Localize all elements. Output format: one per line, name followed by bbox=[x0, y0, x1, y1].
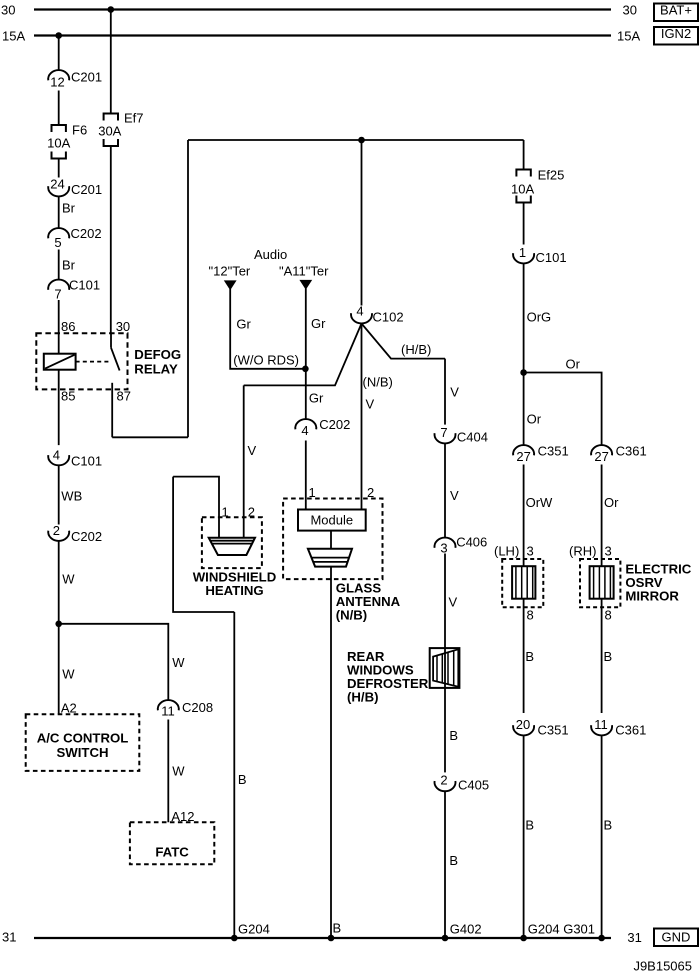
FATC dashed box bbox=[130, 822, 214, 864]
svg-text:GND: GND bbox=[662, 930, 691, 945]
svg-text:W: W bbox=[62, 667, 75, 682]
label WINDSHIELD HEATING bbox=[193, 570, 277, 599]
svg-text:31: 31 bbox=[627, 930, 641, 945]
audio terminal A11 triangle bbox=[299, 280, 312, 290]
label A/C CONTROL SWITCH bbox=[37, 731, 129, 760]
label bus 15A right bbox=[617, 29, 640, 44]
label relay pin 30 bbox=[116, 319, 130, 334]
svg-text:27: 27 bbox=[594, 449, 608, 464]
glass antenna element bbox=[308, 549, 352, 567]
svg-text:(H/B): (H/B) bbox=[401, 342, 431, 357]
label 31 left bbox=[2, 930, 16, 945]
relay coil bbox=[44, 354, 76, 370]
svg-text:RELAY: RELAY bbox=[134, 361, 178, 376]
svg-text:1: 1 bbox=[519, 245, 526, 260]
svg-text:30: 30 bbox=[623, 3, 637, 18]
ground junction G402 bbox=[442, 922, 482, 942]
label "12"Ter bbox=[209, 264, 251, 279]
svg-text:B: B bbox=[449, 728, 458, 743]
wire 12Ter Gr to junction bbox=[230, 289, 305, 369]
svg-text:(W/O RDS): (W/O RDS) bbox=[233, 353, 299, 368]
svg-text:Br: Br bbox=[62, 201, 76, 216]
label bus 30 right bbox=[623, 3, 637, 18]
svg-text:30A: 30A bbox=[98, 124, 121, 139]
connector C405 pin 2 bbox=[435, 773, 490, 793]
svg-text:8: 8 bbox=[605, 608, 612, 623]
svg-text:V: V bbox=[366, 397, 375, 412]
label antenna pin 2 bbox=[367, 485, 374, 500]
ground junction G204 G301 bbox=[520, 922, 595, 942]
windshield heating dashed box bbox=[202, 517, 262, 568]
label W on C208 branch bbox=[172, 655, 185, 670]
svg-text:C361: C361 bbox=[615, 723, 646, 738]
connector C404 pin 7 bbox=[435, 425, 488, 445]
label V windshield bbox=[248, 443, 257, 458]
label LH pin 8 bbox=[527, 608, 534, 623]
label RH pin 8 bbox=[605, 608, 612, 623]
svg-text:OrG: OrG bbox=[527, 310, 552, 325]
svg-text:3: 3 bbox=[527, 544, 534, 559]
svg-text:C101: C101 bbox=[536, 250, 567, 265]
label 31 right bbox=[627, 930, 641, 945]
label "A11"Ter bbox=[279, 264, 329, 279]
wire B to ground G204 bbox=[233, 612, 235, 938]
svg-text:Or: Or bbox=[604, 495, 619, 510]
wire branch to C208 pin11 bbox=[59, 624, 169, 700]
wire 15A bus to C201 pin12 bbox=[58, 36, 60, 71]
wire LH mirror to C351-20, B bbox=[524, 599, 534, 713]
svg-text:B: B bbox=[525, 818, 534, 833]
label bus 30 left bbox=[1, 3, 15, 18]
svg-text:C202: C202 bbox=[71, 529, 102, 544]
label Gr below junction bbox=[309, 391, 324, 406]
svg-text:C208: C208 bbox=[182, 700, 213, 715]
svg-text:4: 4 bbox=[356, 304, 363, 319]
wire C102 H/B branch bbox=[362, 324, 446, 359]
wire F6 to C201 pin24 bbox=[58, 159, 60, 178]
svg-text:11: 11 bbox=[594, 717, 608, 732]
wire tap down to C102 pin4 bbox=[361, 140, 363, 306]
connector C101 pin 4 bbox=[48, 448, 102, 469]
wire windshield pin1 up-over bbox=[173, 477, 219, 538]
label Or branch bbox=[566, 357, 581, 372]
label DEFOG RELAY bbox=[134, 347, 181, 376]
svg-text:C201: C201 bbox=[71, 182, 102, 197]
relay coil-armature dashed link bbox=[76, 361, 111, 363]
svg-text:27: 27 bbox=[516, 449, 530, 464]
label relay pin 86 bbox=[61, 319, 75, 334]
glass antenna dashed box bbox=[283, 499, 382, 580]
svg-text:C406: C406 bbox=[456, 535, 487, 550]
svg-text:A2: A2 bbox=[61, 701, 77, 716]
svg-text:30: 30 bbox=[1, 3, 15, 18]
RH mirror dashed box bbox=[580, 559, 620, 607]
svg-text:3: 3 bbox=[605, 544, 612, 559]
antenna module box bbox=[298, 510, 366, 531]
wire feed down to Ef25 bbox=[523, 140, 525, 170]
svg-text:DEFOG: DEFOG bbox=[134, 347, 181, 362]
wire C201-24 to C202 pin5, Br bbox=[59, 197, 76, 229]
wire Or branch to RH column bbox=[524, 373, 602, 446]
label (N/B) bbox=[363, 375, 393, 390]
svg-text:C404: C404 bbox=[457, 430, 488, 445]
label pin A12 bbox=[171, 809, 194, 824]
wire C208-11 to FATC, W bbox=[168, 720, 185, 823]
wire 87 run to riser bbox=[112, 436, 188, 438]
svg-text:15A: 15A bbox=[2, 29, 25, 44]
wire C361-11 to ground, B bbox=[602, 736, 613, 939]
wire Ef25 to C101 pin1 bbox=[523, 203, 525, 245]
svg-text:"12"Ter: "12"Ter bbox=[209, 264, 251, 279]
svg-text:IGN2: IGN2 bbox=[661, 26, 691, 41]
wire bus 30 bbox=[34, 8, 611, 10]
ground junction G204 left bbox=[231, 922, 270, 942]
svg-text:V: V bbox=[449, 595, 458, 610]
connector C101 pin 1 bbox=[513, 245, 566, 265]
wire C202-4 to antenna module pin1 bbox=[305, 441, 307, 510]
svg-text:C351: C351 bbox=[538, 444, 569, 459]
svg-text:(RH): (RH) bbox=[569, 544, 596, 559]
wire C202-2 down to A/C control switch, W bbox=[59, 541, 76, 714]
label REAR WINDOWS DEFROSTER (H/B) bbox=[347, 649, 429, 705]
wire C201-12 to fuse F6 bbox=[58, 91, 60, 126]
svg-text:MIRROR: MIRROR bbox=[625, 589, 679, 604]
wire C351-20 to ground, B bbox=[524, 736, 534, 939]
wire V to windshield heating pin2 bbox=[243, 385, 245, 537]
svg-text:(H/B): (H/B) bbox=[347, 690, 379, 705]
connector C361 pin 27 bbox=[591, 444, 647, 465]
wire RH mirror to C361-11, B bbox=[602, 599, 613, 713]
svg-text:8: 8 bbox=[527, 608, 534, 623]
svg-text:C201: C201 bbox=[71, 70, 102, 85]
svg-text:85: 85 bbox=[61, 389, 75, 404]
svg-text:Ef7: Ef7 bbox=[124, 111, 144, 126]
wire through defroster to C405, B bbox=[445, 648, 458, 772]
svg-text:"A11"Ter: "A11"Ter bbox=[279, 264, 329, 279]
fuse Ef25 10A bbox=[511, 168, 564, 203]
label windshield pin 1 bbox=[222, 505, 229, 520]
svg-text:OrW: OrW bbox=[526, 495, 553, 510]
connector C202 pin 4 bbox=[295, 417, 350, 438]
svg-text:B: B bbox=[604, 649, 613, 664]
connector C351 pin 20 bbox=[513, 717, 568, 738]
junction on bus 30 (Ef7 feed) bbox=[108, 6, 115, 13]
svg-text:C361: C361 bbox=[616, 444, 647, 459]
svg-text:2: 2 bbox=[440, 773, 447, 788]
ground junction glass antenna bbox=[328, 935, 335, 942]
label FATC bbox=[155, 845, 189, 860]
svg-text:B: B bbox=[238, 772, 247, 787]
wire A11Ter Gr down to C202 pin4 bbox=[305, 289, 307, 420]
svg-text:(N/B): (N/B) bbox=[363, 375, 393, 390]
connector C208 pin 11 bbox=[158, 700, 213, 719]
svg-text:G204 G301: G204 G301 bbox=[528, 922, 595, 937]
junction W wire split bbox=[55, 621, 62, 628]
svg-text:W: W bbox=[172, 655, 185, 670]
svg-text:FATC: FATC bbox=[155, 845, 189, 860]
connector C361 pin 11 bbox=[591, 717, 646, 738]
svg-text:Ef25: Ef25 bbox=[538, 168, 565, 183]
svg-text:A/C CONTROL: A/C CONTROL bbox=[37, 731, 129, 746]
svg-text:7: 7 bbox=[54, 287, 61, 302]
label (RH) bbox=[569, 544, 596, 559]
audio terminal 12 triangle bbox=[224, 280, 237, 290]
fuse F6 10A bbox=[47, 123, 87, 159]
label bus 15A left bbox=[2, 29, 25, 44]
svg-text:Gr: Gr bbox=[311, 316, 326, 331]
wire C406 to defroster, V bbox=[445, 554, 458, 649]
svg-text:(LH): (LH) bbox=[494, 544, 519, 559]
RH mirror motor bbox=[590, 566, 614, 599]
label pin A2 bbox=[61, 701, 77, 716]
wire bus 30 to fuse Ef7 bbox=[110, 10, 112, 114]
label GLASS ANTENNA (N/B) bbox=[336, 581, 401, 623]
connector C101 pin 7 bbox=[48, 278, 100, 302]
svg-text:C102: C102 bbox=[373, 310, 404, 325]
fuse Ef7 30A bbox=[98, 111, 143, 147]
connector C201 pin 12 bbox=[48, 70, 102, 90]
svg-text:Gr: Gr bbox=[309, 391, 324, 406]
label Audio bbox=[254, 247, 287, 262]
svg-text:12: 12 bbox=[50, 75, 64, 90]
svg-text:Br: Br bbox=[62, 258, 76, 273]
svg-text:C101: C101 bbox=[69, 278, 100, 293]
label antenna pin 1 bbox=[309, 485, 316, 500]
label (LH) bbox=[494, 544, 519, 559]
svg-text:C202: C202 bbox=[319, 417, 350, 432]
connector C201 pin 24 bbox=[48, 177, 102, 198]
label RH pin 3 bbox=[605, 544, 612, 559]
junction Or split bbox=[520, 369, 527, 376]
svg-text:24: 24 bbox=[50, 177, 64, 192]
svg-text:WB: WB bbox=[61, 489, 82, 504]
svg-text:11: 11 bbox=[161, 704, 175, 719]
terminal box BAT+ bbox=[654, 3, 698, 22]
terminal box GND bbox=[654, 929, 698, 947]
wire C351-27 to LH mirror, OrW bbox=[524, 465, 553, 567]
wire module to antenna element bbox=[330, 531, 332, 549]
wire relay pin 87 stub bbox=[111, 383, 113, 438]
wire riser up bbox=[187, 140, 189, 437]
wire windshield ground run bbox=[173, 477, 234, 612]
svg-text:3: 3 bbox=[440, 541, 447, 556]
wire C102 N/B branch to module pin2 bbox=[361, 324, 363, 510]
svg-text:V: V bbox=[248, 443, 257, 458]
A/C CONTROL SWITCH dashed box bbox=[26, 714, 140, 771]
svg-text:87: 87 bbox=[117, 389, 131, 404]
svg-text:Module: Module bbox=[310, 513, 353, 528]
svg-text:5: 5 bbox=[54, 235, 61, 250]
svg-text:10A: 10A bbox=[511, 182, 534, 197]
svg-text:W: W bbox=[62, 572, 75, 587]
wire C361-27 to RH mirror, Or bbox=[602, 465, 620, 567]
svg-text:86: 86 bbox=[61, 319, 75, 334]
defog relay dashed box bbox=[36, 333, 127, 389]
svg-text:W: W bbox=[172, 764, 185, 779]
junction audio Gr bbox=[302, 366, 309, 373]
svg-text:J9B15065: J9B15065 bbox=[633, 959, 692, 974]
label LH pin 3 bbox=[527, 544, 534, 559]
label windshield pin 2 bbox=[248, 505, 255, 520]
label ELECTRIC OSRV MIRROR bbox=[625, 562, 691, 604]
windshield heating element bbox=[209, 538, 255, 555]
wire C202-5 to C101 pin7, Br bbox=[59, 250, 76, 280]
svg-text:10A: 10A bbox=[47, 136, 70, 151]
label Gr 12Ter bbox=[236, 317, 251, 332]
label V antenna bbox=[366, 397, 375, 412]
svg-text:4: 4 bbox=[53, 448, 60, 463]
svg-text:C351: C351 bbox=[538, 723, 569, 738]
wire C405 to ground G402, B bbox=[445, 791, 458, 938]
label (W/O RDS) bbox=[233, 353, 299, 368]
rear window defroster element bbox=[430, 648, 460, 688]
svg-text:V: V bbox=[450, 488, 459, 503]
wire C102 W/O-RDS branch bbox=[244, 324, 362, 386]
wire H/B down to C404 bbox=[444, 359, 446, 425]
label relay pin 87 bbox=[117, 389, 131, 404]
connector C406 pin 3 bbox=[435, 535, 488, 556]
label B windshield ground bbox=[238, 772, 247, 787]
connector C102 pin 4 bbox=[351, 304, 404, 325]
label J9B15065 bbox=[633, 959, 692, 974]
label V defroster top bbox=[450, 385, 459, 400]
wire top feed run bbox=[188, 139, 524, 141]
ground junction right bbox=[598, 935, 605, 942]
svg-text:HEATING: HEATING bbox=[205, 583, 263, 598]
svg-text:30: 30 bbox=[116, 319, 130, 334]
svg-text:Audio: Audio bbox=[254, 247, 287, 262]
svg-text:7: 7 bbox=[440, 425, 447, 440]
svg-text:G402: G402 bbox=[450, 922, 482, 937]
wire C101-4 to C202 pin2, WB bbox=[59, 465, 83, 524]
terminal box IGN2 bbox=[654, 26, 698, 45]
svg-text:C101: C101 bbox=[71, 454, 102, 469]
svg-text:Or: Or bbox=[527, 412, 542, 427]
svg-text:B: B bbox=[604, 818, 613, 833]
svg-text:B: B bbox=[525, 649, 534, 664]
svg-text:Or: Or bbox=[566, 357, 581, 372]
wire Ef7 to relay pin 30 bbox=[110, 146, 112, 333]
relay switch arm bbox=[111, 333, 120, 370]
junction C102 tap bbox=[358, 137, 365, 144]
wire C404 to C406, V bbox=[445, 444, 459, 538]
LH mirror dashed box bbox=[502, 559, 543, 607]
svg-text:Gr: Gr bbox=[236, 317, 251, 332]
wire bus 15A bbox=[34, 34, 611, 36]
wire C101-1 down OrG bbox=[524, 264, 552, 446]
junction on bus 15A (F6 feed) bbox=[55, 32, 62, 39]
svg-text:(N/B): (N/B) bbox=[336, 608, 368, 623]
LH mirror motor bbox=[512, 566, 535, 599]
svg-text:A12: A12 bbox=[171, 809, 194, 824]
label relay pin 85 bbox=[61, 389, 75, 404]
svg-text:C405: C405 bbox=[458, 778, 489, 793]
svg-text:31: 31 bbox=[2, 930, 16, 945]
wire C101-7 to defog relay pin 86 bbox=[58, 300, 60, 354]
svg-text:SWITCH: SWITCH bbox=[56, 745, 108, 760]
label Gr A11Ter bbox=[311, 316, 326, 331]
connector C202 pin 5 bbox=[48, 226, 101, 250]
wire antenna element to ground, B bbox=[331, 567, 341, 938]
wire ground bus 31 bbox=[34, 937, 611, 939]
svg-text:C202: C202 bbox=[71, 226, 102, 241]
svg-text:F6: F6 bbox=[72, 123, 87, 138]
svg-text:V: V bbox=[450, 385, 459, 400]
connector C351 pin 27 bbox=[513, 444, 569, 465]
label Or left bbox=[527, 412, 542, 427]
svg-text:B: B bbox=[449, 853, 458, 868]
wire relay pin 85 to C101 pin4 bbox=[58, 370, 60, 445]
svg-text:20: 20 bbox=[516, 717, 530, 732]
svg-text:15A: 15A bbox=[617, 29, 640, 44]
svg-text:2: 2 bbox=[53, 523, 60, 538]
svg-text:B: B bbox=[333, 921, 342, 936]
svg-text:BAT+: BAT+ bbox=[660, 3, 692, 18]
svg-text:4: 4 bbox=[301, 423, 308, 438]
svg-text:G204: G204 bbox=[238, 922, 270, 937]
connector C202 pin 2 bbox=[48, 523, 102, 544]
label (H/B) bbox=[401, 342, 431, 357]
